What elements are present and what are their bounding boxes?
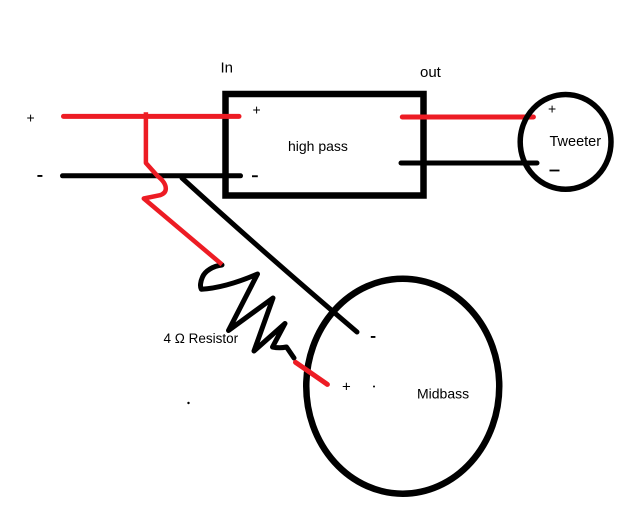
svg-text:+: +: [253, 102, 261, 118]
svg-text:+: +: [342, 379, 351, 396]
pin - (high pass input minus): [252, 175, 258, 177]
midbass speaker SPK2 circle: [306, 279, 499, 494]
svg-text:high pass: high pass: [288, 138, 348, 154]
wire black input minus horizontal: [63, 173, 241, 178]
stray dot near midbass plus: [373, 386, 375, 388]
svg-text:In: In: [221, 60, 234, 77]
high pass filter box U1: [226, 94, 424, 196]
svg-text:Tweeter: Tweeter: [550, 134, 602, 150]
wire black diagonal to midbass minus: [182, 178, 357, 332]
svg-text:out: out: [420, 64, 442, 81]
node - (input minus, left): [37, 175, 42, 177]
pin - (midbass minus): [371, 336, 376, 338]
svg-text:+: +: [548, 101, 556, 117]
wire black high pass output to tweeter minus: [401, 161, 537, 166]
wire red resistor lead to midbass plus: [296, 362, 328, 384]
wire red high pass output to tweeter plus: [402, 115, 533, 120]
stray dot below resistor label: [187, 402, 189, 404]
tweeter speaker SPK1 circle: [520, 94, 611, 189]
wire red branch jog down from plus wire: [144, 112, 222, 264]
pin - (tweeter minus): [550, 170, 560, 172]
resistor R1 zigzag body: [200, 265, 294, 358]
svg-text:4 Ω Resistor: 4 Ω Resistor: [164, 331, 239, 346]
svg-text:+: +: [27, 110, 35, 126]
wire red input plus horizontal: [64, 114, 240, 119]
svg-text:Midbass: Midbass: [417, 386, 469, 402]
